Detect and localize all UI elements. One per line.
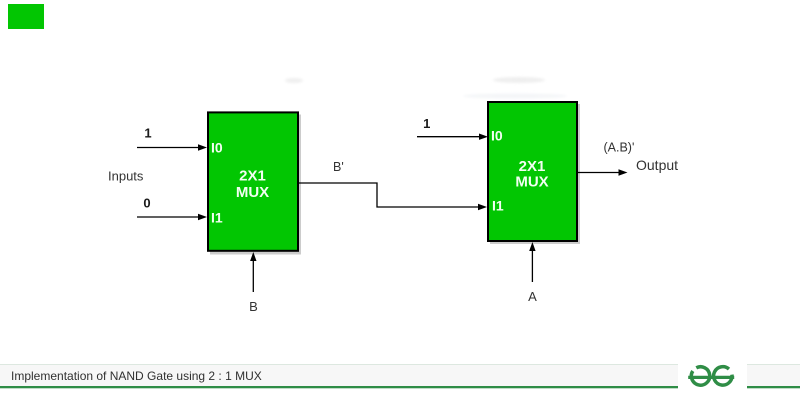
caption band right — [747, 364, 800, 386]
svg-text:I0: I0 — [491, 127, 503, 143]
faint smudge near right mux top — [463, 93, 567, 98]
svg-text:Output: Output — [636, 157, 678, 173]
caption green underline left — [0, 386, 678, 388]
faint smudge above left mux — [285, 78, 303, 83]
svg-text:MUX: MUX — [236, 184, 269, 201]
wire select A into U2 bottom — [531, 250, 533, 282]
wire input 1 to U2 I0 — [417, 136, 480, 138]
GeeksforGeeks logo right ring — [714, 367, 732, 385]
svg-text:Inputs: Inputs — [108, 168, 144, 183]
svg-text:0: 0 — [143, 196, 150, 211]
mux U2 box — [488, 102, 577, 241]
mux U1 shadow — [210, 115, 301, 255]
svg-text:1: 1 — [423, 116, 430, 131]
GeeksforGeeks logo left ring — [691, 367, 709, 385]
wire output (A.B)' from U2 — [577, 172, 620, 174]
caption green underline right — [747, 386, 800, 388]
wire select B into U1 bottom — [252, 260, 254, 292]
mux U2 shadow — [490, 104, 580, 244]
caption band left — [0, 364, 678, 386]
corner logo green square — [8, 4, 44, 29]
svg-text:I1: I1 — [492, 197, 504, 213]
svg-text:B: B — [249, 299, 258, 314]
svg-text:A: A — [528, 289, 537, 304]
wire input 1 to U1 I0 — [137, 147, 200, 149]
svg-text:B': B' — [333, 160, 344, 174]
wire node B' : U1 output to U2 I1 — [299, 183, 479, 207]
wire input 0 to U1 I1 — [137, 216, 200, 218]
svg-text:1: 1 — [144, 125, 151, 140]
svg-text:Implementation of NAND Gate us: Implementation of NAND Gate using 2 : 1 … — [11, 369, 262, 383]
svg-text:I0: I0 — [211, 139, 223, 155]
svg-text:2X1: 2X1 — [519, 158, 546, 175]
GeeksforGeeks logo bar — [688, 376, 734, 379]
svg-text:MUX: MUX — [515, 173, 548, 190]
svg-text:(A.B)': (A.B)' — [604, 141, 635, 155]
mux U1 box — [208, 112, 298, 250]
svg-text:I1: I1 — [211, 210, 223, 226]
faint smudge above right mux — [493, 77, 545, 83]
svg-text:2X1: 2X1 — [239, 167, 266, 184]
